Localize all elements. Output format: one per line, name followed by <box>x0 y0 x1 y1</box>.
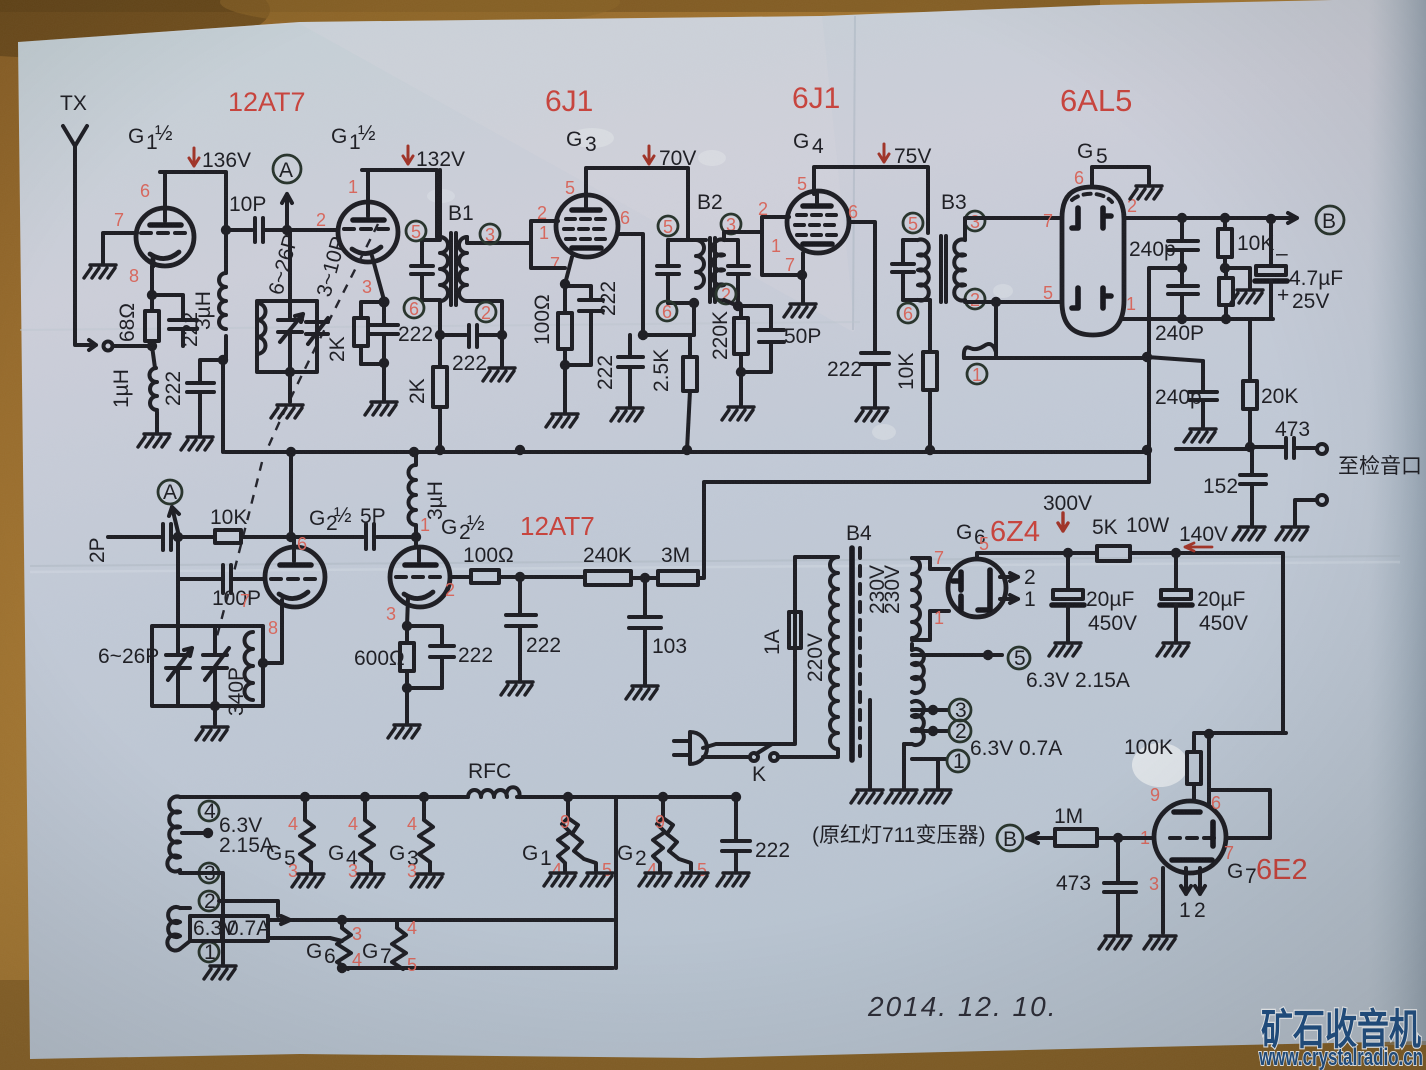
B3 tertiary coil <box>964 344 996 358</box>
junction <box>337 915 347 925</box>
tube 6Z4 <box>948 559 1006 617</box>
node <box>379 358 389 368</box>
tube G2b <box>390 547 450 607</box>
ground <box>1157 643 1189 656</box>
junction <box>515 572 525 582</box>
tank coil <box>245 632 254 700</box>
jack lower terminal <box>1317 495 1327 505</box>
ground <box>885 790 917 803</box>
pin6 loop <box>1209 790 1270 838</box>
coil 1uH <box>152 346 157 432</box>
junction <box>286 532 296 542</box>
banner 6.3V 0.7A <box>190 916 268 941</box>
tube 6E2 <box>1154 801 1226 873</box>
pin 1 circled <box>967 364 987 384</box>
pin 3 circled <box>199 863 219 883</box>
ground <box>196 727 228 740</box>
junction <box>928 726 938 736</box>
tank 1 <box>257 230 317 372</box>
ground <box>1130 186 1162 199</box>
cathode RC <box>565 257 572 284</box>
ground <box>676 873 708 886</box>
capacitor 222 <box>565 286 603 365</box>
ground <box>365 402 397 415</box>
junction <box>560 279 570 289</box>
junction <box>1177 314 1187 324</box>
ground <box>581 873 613 886</box>
resistor 10K upper <box>1218 229 1232 257</box>
resistor 20K <box>1248 319 1252 447</box>
heater G2 pair <box>658 792 668 802</box>
junction <box>1204 729 1214 739</box>
node B input <box>997 825 1023 851</box>
pin 2 circled <box>476 302 496 322</box>
grid box pin2 <box>531 243 565 268</box>
tube 6AL5 <box>1062 187 1124 335</box>
voltage arrow 136V <box>189 148 199 166</box>
pin 6 circled <box>898 303 918 323</box>
dashed gang line <box>266 224 378 452</box>
watermark <box>1258 1006 1423 1070</box>
wire detector line right <box>1147 357 1203 361</box>
switch K <box>703 755 748 759</box>
junction <box>337 963 347 973</box>
winding 6.3V 0.7A <box>167 907 180 951</box>
diode bottom wire <box>1122 317 1273 321</box>
heater taps <box>904 655 1002 759</box>
node A <box>273 155 301 183</box>
wire to AVC vertical <box>1149 268 1182 482</box>
capacitor 222 heater <box>731 792 741 802</box>
junction <box>1063 548 1073 558</box>
resistor 10K <box>923 352 937 390</box>
B2 right bottom node <box>724 300 771 306</box>
tap <box>182 831 208 835</box>
wire <box>226 228 252 232</box>
capacitor 240p third <box>1189 361 1217 427</box>
pin 5 circled <box>1008 647 1030 669</box>
capacitor 20uF first <box>1066 553 1070 590</box>
cathode pin7 ground <box>801 253 805 302</box>
resistor 2.5K <box>683 357 697 391</box>
junction <box>435 330 445 340</box>
output wire to B <box>1124 213 1297 223</box>
ground <box>204 966 236 979</box>
ground <box>626 686 658 699</box>
antenna <box>63 126 96 350</box>
capacitor 4.7uF electrolytic <box>1269 219 1273 266</box>
pin 5 circled <box>903 213 923 233</box>
capacitor 20uF second <box>1174 553 1178 590</box>
fuse 1A <box>789 612 801 648</box>
wire plate rail 132V <box>362 170 437 237</box>
ground <box>919 790 951 803</box>
plug <box>674 732 707 764</box>
junction <box>285 367 295 377</box>
capacitor 222 bypass <box>407 626 454 688</box>
junction <box>497 330 507 340</box>
B2 primary coil <box>668 240 706 303</box>
winding 6.3V 2.15A <box>167 796 180 871</box>
pin 3 circled <box>721 214 741 234</box>
junction <box>1142 445 1152 455</box>
ground <box>856 408 888 421</box>
ground <box>1144 936 1176 949</box>
ground <box>1276 527 1308 540</box>
plate wire <box>292 537 296 547</box>
node <box>147 290 157 300</box>
plate wire to B2 bottom <box>618 234 694 335</box>
B3 primary coil <box>903 240 930 301</box>
junction <box>1113 833 1123 843</box>
heater zigzag G4 <box>360 792 370 802</box>
pin 6 circled <box>657 301 677 321</box>
ground <box>138 434 170 447</box>
capacitor 222 lower <box>187 360 223 435</box>
wire grid to ground <box>103 233 137 263</box>
junction <box>218 355 228 365</box>
B+ drop to 6E2 <box>1194 553 1286 752</box>
junction <box>689 298 699 308</box>
resistor 600ohm <box>400 643 414 671</box>
pin6 shield ground <box>1092 167 1149 187</box>
junction <box>797 270 807 280</box>
ground <box>611 408 643 421</box>
SCHEMATIC <box>570 128 614 148</box>
grid wire to G4 <box>724 217 789 240</box>
capacitor 473 <box>1104 838 1136 933</box>
tube G2a <box>265 547 325 607</box>
junction <box>1142 352 1152 362</box>
junction <box>402 683 412 693</box>
wire detector line <box>964 352 1147 358</box>
wire 3uH node to bus <box>221 360 225 452</box>
ground <box>352 874 384 887</box>
junction <box>1266 214 1276 224</box>
node cathode <box>381 299 388 306</box>
B3 secondary top to 6AL5 <box>965 218 1061 240</box>
pin 3 circled <box>480 224 500 244</box>
cathode wire <box>263 600 282 663</box>
wire to tertiary line <box>994 302 998 352</box>
cathode network <box>407 598 408 626</box>
plate wire 222 decoupling <box>849 222 875 351</box>
capacitor 10P coupling <box>255 218 336 242</box>
junction <box>411 532 421 542</box>
node B <box>1316 206 1344 234</box>
wire cathode <box>150 266 154 295</box>
B4 heater winding 1 <box>912 649 924 693</box>
ground branch <box>1225 268 1250 288</box>
B4 HV secondary <box>912 558 920 638</box>
ground <box>1184 429 1216 442</box>
heater zigzag G3 <box>419 792 429 802</box>
B2 core <box>710 238 715 302</box>
junction <box>983 650 993 660</box>
capacitor 222 cathode <box>152 295 197 346</box>
wire B2 bottom <box>692 303 696 335</box>
junction <box>435 445 445 455</box>
wire <box>113 344 152 348</box>
B1 padding cap <box>411 240 440 300</box>
plug wires <box>703 557 838 748</box>
wire from AVC bus <box>289 452 293 537</box>
tube G1b <box>338 202 398 262</box>
eye arrows <box>1181 868 1205 894</box>
junction <box>1221 314 1231 324</box>
B3 secondary bottom to 6AL5 pin5 <box>965 300 1060 302</box>
ground <box>546 414 578 427</box>
pin 1 circled <box>947 750 969 772</box>
coil 3uH second <box>408 452 416 547</box>
junction <box>736 367 746 377</box>
junction <box>409 447 419 457</box>
pin 5 circled <box>658 216 678 236</box>
pin 6 circled <box>404 298 424 318</box>
junction <box>173 532 183 542</box>
banner line to loop <box>268 938 342 941</box>
resistor 100ohm <box>563 284 567 365</box>
ground <box>1231 290 1263 303</box>
variable cap 2 <box>203 626 229 706</box>
ground <box>271 405 303 418</box>
node <box>147 341 157 351</box>
ground <box>851 790 883 803</box>
wire riser to G6 G7 loop <box>614 797 618 968</box>
ground <box>483 368 515 381</box>
grid output chain <box>450 575 471 579</box>
node A arrow <box>169 507 179 532</box>
wire plate rail 136V <box>160 172 226 230</box>
pin 1 circled <box>199 942 219 962</box>
terminal <box>104 342 113 351</box>
variable cap 1 <box>166 626 192 706</box>
ground <box>388 725 420 738</box>
resistor 2K <box>361 302 384 364</box>
tube G4 pentode <box>787 191 849 253</box>
B2 secondary cap <box>724 240 749 306</box>
capacitor 222 <box>370 305 398 362</box>
capacitor 222 coupling <box>440 325 502 366</box>
wire tap2 <box>219 901 278 916</box>
pin 3 circled <box>949 699 971 721</box>
capacitor 222 plate <box>618 335 643 406</box>
resistor 220K <box>734 318 748 354</box>
ground <box>784 304 816 317</box>
junction <box>682 445 692 455</box>
junction <box>210 701 220 711</box>
B1 wires bottom <box>440 301 502 335</box>
capacitor 5P <box>366 524 416 549</box>
resistor 68ohm <box>150 295 154 346</box>
junction <box>733 301 743 311</box>
junction <box>1177 213 1187 223</box>
grid box pin1 <box>762 232 802 275</box>
filament arrows <box>1000 573 1018 581</box>
ground <box>717 873 749 886</box>
junction <box>928 705 938 715</box>
node A <box>158 480 182 504</box>
heater zigzag G6 <box>337 920 351 969</box>
B4 ground stems <box>870 644 938 788</box>
resistor lower <box>1219 278 1233 305</box>
resistor 2K second <box>433 367 447 407</box>
node <box>221 225 231 235</box>
pin 4 circled <box>199 801 219 821</box>
plate riser <box>1207 734 1211 806</box>
B2 secondary <box>713 240 724 301</box>
B2 padding cap <box>657 240 679 303</box>
B1 secondary top wire to G3 <box>467 221 558 243</box>
B4 core <box>849 548 855 760</box>
pin 2 circled <box>965 289 985 309</box>
capacitor 240P second <box>1168 268 1198 319</box>
ground <box>292 874 324 887</box>
ground <box>411 874 443 887</box>
junction <box>560 360 570 370</box>
junction <box>640 573 650 583</box>
cathode pin3 <box>1161 868 1165 933</box>
pin 2 circled <box>949 720 971 742</box>
ground <box>722 407 754 420</box>
B1 secondary coil <box>459 237 467 301</box>
ground <box>501 682 533 695</box>
junction <box>1220 213 1230 223</box>
heater zigzag G7 <box>392 920 406 969</box>
node A arrow <box>282 194 292 230</box>
capacitor 50P <box>741 306 784 372</box>
B3 left bottom to 10K <box>928 300 932 352</box>
HV to 6Z4 plates <box>912 558 949 640</box>
capacitor 222 <box>506 577 536 680</box>
junction <box>286 447 296 457</box>
junction <box>1171 548 1181 558</box>
junction <box>1177 263 1187 273</box>
voltage arrow 132V <box>403 146 413 164</box>
pin 3 circled <box>965 211 985 231</box>
junction <box>1220 263 1230 273</box>
coil 3uH <box>224 230 228 360</box>
heater G1 pair <box>563 792 573 802</box>
pin 2 circled <box>716 284 736 304</box>
B4 heater winding 2 <box>912 701 924 745</box>
junction <box>402 621 412 631</box>
G6 G7 loop <box>268 920 613 968</box>
junction <box>638 330 648 340</box>
ground <box>84 265 116 278</box>
junction <box>258 658 268 668</box>
B1 primary coil <box>440 237 448 301</box>
pin 2 circled <box>199 891 219 911</box>
capacitor 100P <box>178 537 265 626</box>
heater bus <box>180 795 736 799</box>
junction <box>515 445 525 455</box>
ground <box>639 873 671 886</box>
ground <box>544 873 576 886</box>
ground <box>1049 643 1081 656</box>
capacitor 103 <box>629 578 661 684</box>
ground <box>1099 936 1131 949</box>
junction <box>925 445 935 455</box>
ground <box>181 437 213 450</box>
pin 5 circled <box>406 221 426 241</box>
heater zigzag G5 <box>300 792 310 802</box>
B3 secondary coil <box>954 240 965 301</box>
junction <box>991 297 1001 307</box>
plate rail 75V <box>814 167 928 233</box>
ground <box>1233 527 1265 540</box>
tube G3 pentode <box>556 195 618 257</box>
B3 padding cap <box>892 240 914 300</box>
B1 core <box>451 233 456 305</box>
B4 primary coil <box>830 557 838 749</box>
node A junction <box>282 225 292 235</box>
B3 core <box>941 236 946 302</box>
white correction smudge <box>1132 743 1188 787</box>
junction <box>1245 442 1255 452</box>
plate rail 70V <box>586 168 688 240</box>
